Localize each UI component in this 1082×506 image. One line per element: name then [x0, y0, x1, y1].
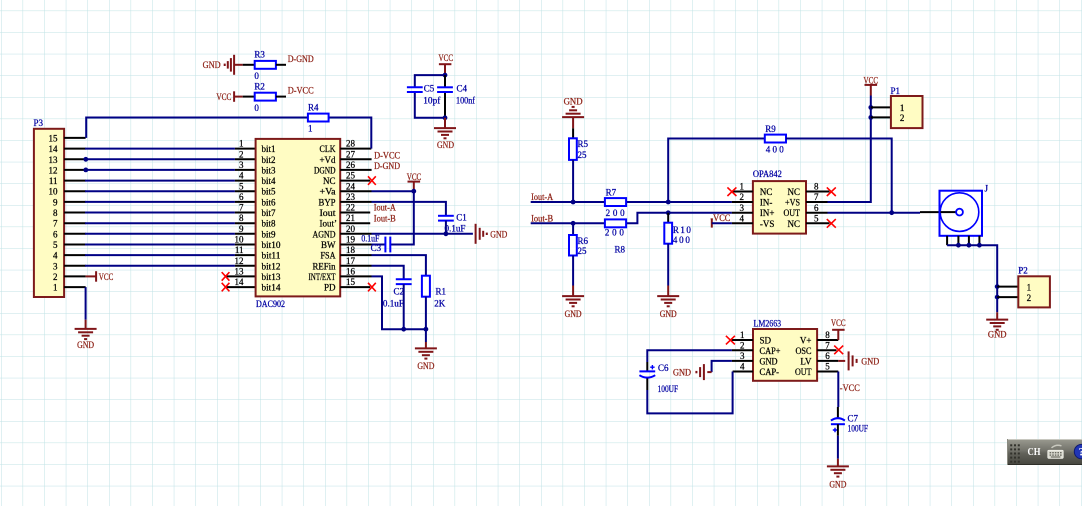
DAC902 right pin stubs 28-15: [340, 149, 371, 288]
svg-text:100UF: 100UF: [848, 424, 869, 434]
svg-text:R7: R7: [606, 188, 617, 198]
wire J shield to P2 rail: [947, 245, 997, 312]
junction dot P2 pin 2: [995, 295, 1000, 300]
svg-text:GND: GND: [829, 479, 846, 489]
svg-text:0: 0: [254, 71, 259, 81]
junction dot J stub 2: [956, 243, 961, 248]
connector P3: [34, 118, 86, 297]
svg-text:AGND: AGND: [313, 229, 336, 239]
svg-text:21: 21: [346, 213, 355, 223]
svg-text:bit9: bit9: [262, 229, 277, 239]
svg-text:BYP: BYP: [319, 197, 336, 207]
junction dot R10/IN+ line: [666, 210, 671, 215]
resistor R8 200: [605, 219, 626, 254]
svg-text:bit6: bit6: [262, 197, 277, 207]
svg-text:R6: R6: [578, 236, 589, 246]
svg-text:1: 1: [308, 124, 313, 134]
wire OUT pin 5 down to C7: [837, 372, 839, 408]
no-connect X on DAC902 pin 25 NC: [368, 176, 376, 185]
svg-text:9: 9: [53, 197, 58, 207]
resistor R2 0: [254, 81, 276, 113]
no-connect X on DAC902 pin 14 bit14: [222, 283, 230, 292]
capacitor C1 0.1uF: [438, 213, 467, 234]
junction dot R6/Iout-B: [571, 221, 576, 226]
junction dot P1 pin 1: [868, 105, 873, 110]
wire Iout-B junction down to R6: [572, 223, 574, 235]
svg-text:10: 10: [49, 187, 59, 197]
no-connect X on DAC902 pin 13 bit13: [222, 272, 230, 281]
svg-text:DGND: DGND: [314, 165, 336, 175]
svg-text:D-VCC: D-VCC: [288, 86, 314, 96]
svg-text:7: 7: [825, 340, 830, 350]
svg-text:C7: C7: [848, 413, 859, 423]
power port VCC at P3 pin 2: [86, 271, 114, 282]
svg-text:IN-: IN-: [760, 198, 773, 208]
svg-text:Iout: Iout: [320, 208, 337, 218]
DAC902 U1 body: [235, 139, 356, 309]
resistor R10 400: [664, 223, 691, 246]
svg-text:bit8: bit8: [262, 219, 277, 229]
svg-text:6: 6: [239, 192, 244, 202]
language bar help button: [1074, 444, 1082, 458]
wire R1 down to ground rail: [425, 297, 427, 330]
capacitor C6 100UF polarized: [639, 362, 678, 394]
wire C6 bottom to CAP- pin 4: [647, 372, 732, 414]
language bar keyboard icon: [1048, 445, 1063, 458]
svg-text:3: 3: [740, 203, 745, 213]
OPA842 pin stubs: [732, 192, 830, 224]
svg-text:GND: GND: [417, 361, 434, 371]
svg-text:R4: R4: [308, 102, 319, 112]
svg-text:3: 3: [740, 351, 745, 361]
wire BW pin 19 to C3: [372, 244, 386, 246]
svg-text:100nf: 100nf: [456, 96, 475, 106]
power port -VCC at OPA842 pin 4: [710, 213, 732, 228]
wire bus P3 pins 14-3 to DAC902 bit1-bit12: [85, 149, 235, 266]
junction dot P1 pin 2: [868, 115, 873, 120]
svg-text:2: 2: [740, 340, 745, 350]
resistor R1 2K: [422, 276, 446, 309]
wire C4 branch: [444, 75, 446, 118]
power port GND below P2 rail: [986, 312, 1008, 339]
svg-text:14: 14: [235, 277, 245, 287]
svg-text:VCC: VCC: [831, 318, 846, 328]
P2 pin stubs: [997, 287, 1018, 298]
junction dot C4 bottom: [443, 115, 448, 120]
svg-text:8: 8: [825, 330, 830, 340]
svg-text:17: 17: [346, 256, 356, 266]
svg-text:24: 24: [346, 181, 356, 191]
svg-text:NC: NC: [787, 187, 800, 197]
no-connect X on LM2663 pin 1 SD: [726, 336, 735, 345]
svg-text:bit10: bit10: [262, 240, 281, 250]
svg-text:1: 1: [740, 182, 745, 192]
svg-text:4: 4: [740, 213, 745, 223]
wire net CLK from R4 left to P3 pin 15: [86, 118, 308, 138]
svg-text:GND: GND: [203, 60, 221, 70]
junction dot P3 pin 12 row: [83, 168, 88, 173]
svg-text:VCC: VCC: [99, 272, 114, 282]
language bar grip dots: [1010, 444, 1020, 462]
svg-text:IN+: IN+: [760, 208, 775, 218]
svg-text:R1: R1: [436, 287, 447, 297]
svg-text:8: 8: [53, 208, 58, 218]
svg-text:R10: R10: [673, 225, 692, 235]
power port GND below R6: [562, 286, 584, 319]
svg-text:1: 1: [740, 330, 745, 340]
wire net CLK from pin 28 up over to R4: [329, 118, 372, 149]
svg-text:400: 400: [766, 145, 785, 155]
svg-text:D-GND: D-GND: [288, 54, 314, 64]
svg-text:DAC902: DAC902: [256, 299, 285, 309]
junction dot P2 pin 1: [995, 284, 1000, 289]
DAC902 left pin stubs bit1-bit14: [226, 149, 256, 288]
svg-text:0: 0: [254, 103, 259, 113]
svg-text:5: 5: [814, 213, 819, 223]
svg-text:0.1uF: 0.1uF: [445, 224, 466, 234]
svg-text:11: 11: [235, 245, 244, 255]
P1 pin stubs: [871, 107, 891, 117]
svg-text:15: 15: [346, 277, 356, 287]
svg-text:C3: C3: [371, 243, 382, 253]
svg-text:Iout’: Iout’: [320, 219, 338, 229]
connector J BNC: [920, 184, 989, 246]
wire feedback from Iout-A junction up to R9: [668, 139, 765, 203]
power port GND above R5: [562, 97, 584, 129]
power port GND below C4: [434, 118, 456, 150]
svg-text:CAP-: CAP-: [760, 367, 780, 377]
svg-text:5: 5: [239, 181, 244, 191]
svg-text:NC: NC: [323, 176, 336, 186]
power port VCC above P1 rail: [864, 75, 879, 95]
junction dot VCC/C4 top: [443, 73, 448, 78]
power port GND at P3 pin 1: [75, 287, 97, 350]
connector P2: [1018, 266, 1050, 308]
svg-text:OPA842: OPA842: [753, 169, 782, 179]
svg-text:22: 22: [346, 203, 355, 213]
svg-text:15: 15: [49, 133, 59, 143]
svg-text:VCC: VCC: [864, 75, 879, 85]
svg-text:INT/EXT: INT/EXT: [309, 272, 336, 282]
svg-text:Iout-B: Iout-B: [531, 214, 553, 224]
power port GND at R3: [203, 55, 243, 75]
svg-text:2: 2: [900, 113, 905, 123]
wire GND to R5: [572, 128, 574, 138]
svg-text:D-GND: D-GND: [374, 161, 400, 171]
svg-text:GND: GND: [988, 330, 1007, 340]
wire C1 down to AGND line: [445, 221, 447, 234]
svg-text:LV: LV: [800, 356, 812, 366]
svg-text:200: 200: [606, 208, 626, 218]
svg-text:200: 200: [605, 228, 625, 238]
svg-text:1: 1: [239, 139, 244, 149]
junction dot J stub 4: [977, 243, 982, 248]
power port GND at LM2663 pin 3: [673, 364, 712, 380]
resistor R3 0: [254, 49, 276, 81]
resistor R5 25: [569, 138, 589, 160]
wire from +Va junction down to C3: [390, 191, 414, 244]
svg-text:CAP+: CAP+: [760, 346, 781, 356]
wire R6 down to GND: [572, 256, 574, 286]
svg-text:1: 1: [53, 283, 58, 293]
wire AGND pin 20 to GND port: [372, 233, 473, 235]
wire GND pin 3 to ground port: [712, 361, 732, 372]
svg-text:2: 2: [53, 272, 58, 282]
svg-text:1: 1: [900, 103, 905, 113]
svg-text:LM2663: LM2663: [754, 319, 782, 329]
junction dot R5/Iout-A: [571, 200, 576, 205]
svg-text:GND: GND: [760, 356, 778, 366]
svg-text:bit2: bit2: [262, 155, 276, 165]
svg-text:V+: V+: [800, 336, 812, 346]
svg-text:-VCC: -VCC: [710, 213, 730, 223]
svg-text:bit4: bit4: [262, 176, 277, 186]
svg-text:8: 8: [239, 213, 244, 223]
wire GND to R3: [243, 64, 255, 66]
svg-text:GND: GND: [564, 97, 583, 107]
wire BYP pin 23 to C1: [372, 202, 446, 216]
svg-text:C2: C2: [394, 287, 405, 297]
svg-text:VCC: VCC: [407, 172, 422, 182]
svg-text:bit11: bit11: [262, 251, 281, 261]
svg-text:VCC: VCC: [216, 92, 231, 102]
wire R10 down to GND: [667, 244, 669, 286]
svg-text:28: 28: [346, 139, 356, 149]
svg-text:19: 19: [346, 235, 356, 245]
svg-text:0.1uF: 0.1uF: [383, 299, 404, 309]
power port VCC at DAC pin 24: [407, 172, 422, 191]
svg-text:R5: R5: [578, 139, 589, 149]
svg-text:P3: P3: [34, 118, 44, 128]
wire C2 down to ground rail: [403, 284, 405, 329]
svg-text:GND: GND: [565, 309, 582, 319]
svg-text:R2: R2: [254, 81, 265, 91]
capacitor C3 0.1uF: [361, 233, 390, 253]
LM2663 pin stubs: [731, 340, 839, 372]
wire REFin pin 17 to C2: [372, 266, 404, 280]
svg-text:7: 7: [239, 203, 244, 213]
connector P1: [891, 86, 923, 128]
svg-text:GND: GND: [490, 229, 507, 239]
svg-text:1: 1: [1027, 282, 1032, 292]
junction dot C2/ground rail: [401, 327, 406, 332]
power port GND at LM2663 pin 6 LV: [838, 351, 879, 370]
svg-text:100UF: 100UF: [658, 384, 679, 394]
svg-text:2K: 2K: [434, 299, 446, 309]
svg-text:CLK: CLK: [320, 144, 336, 154]
wire R2 to net label: [276, 96, 286, 98]
svg-text:4: 4: [239, 171, 244, 181]
svg-text:OSC: OSC: [796, 346, 812, 356]
no-connect X on OPA842 pin 1: [727, 187, 736, 196]
svg-text:GND: GND: [861, 357, 879, 367]
svg-text:BW: BW: [321, 240, 336, 250]
svg-text:3: 3: [239, 160, 244, 170]
svg-text:bit7: bit7: [262, 208, 277, 218]
svg-text:26: 26: [346, 160, 356, 170]
wire C5 branch loop: [415, 75, 445, 118]
svg-text:2: 2: [1027, 293, 1032, 303]
svg-text:5: 5: [825, 362, 830, 372]
svg-text:+Va: +Va: [320, 187, 336, 197]
resistor R4: [308, 102, 329, 133]
svg-text:4: 4: [740, 362, 745, 372]
svg-text:bit3: bit3: [262, 165, 277, 175]
svg-text:VCC: VCC: [439, 53, 454, 63]
wire C7 down to GND: [837, 436, 839, 459]
no-connect X on OPA842 pin 8: [827, 187, 836, 196]
svg-text:8: 8: [814, 182, 819, 192]
power port GND below C7: [827, 459, 849, 490]
charge pump LM2663 body: [740, 319, 830, 381]
wire OUT pin 6 to J: [828, 212, 921, 214]
junction dot C1/AGND: [444, 231, 449, 236]
svg-text:2: 2: [239, 149, 244, 159]
svg-text:GND: GND: [77, 340, 94, 350]
svg-text:23: 23: [346, 192, 356, 202]
no-connect X on DAC902 pin 15 PD: [368, 283, 376, 292]
svg-text:4: 4: [53, 251, 58, 261]
svg-text:27: 27: [346, 149, 356, 159]
svg-text:Iout-B: Iout-B: [374, 213, 396, 223]
svg-text:3: 3: [53, 261, 58, 271]
wire R9 right side down to OUT line: [786, 139, 892, 213]
svg-text:18: 18: [346, 245, 356, 255]
resistor R7 200: [605, 188, 626, 218]
svg-text:C6: C6: [658, 363, 669, 373]
svg-text:bit14: bit14: [262, 283, 281, 293]
resistor R9 400: [765, 124, 786, 154]
svg-text:bit12: bit12: [262, 261, 281, 271]
svg-text:12: 12: [49, 165, 58, 175]
svg-text:?: ?: [1079, 447, 1082, 459]
Windows language bar: [1007, 439, 1082, 465]
junction dot +Va/VCC: [411, 189, 416, 194]
svg-text:25: 25: [578, 150, 588, 160]
svg-text:-VS: -VS: [760, 219, 775, 229]
svg-text:OUT: OUT: [784, 208, 801, 218]
wire +VS pin 7 to VCC rail: [828, 96, 871, 203]
capacitor C7 100UF polarized: [831, 407, 868, 436]
svg-text:6: 6: [825, 351, 830, 361]
svg-text:7: 7: [814, 192, 819, 202]
svg-text:PD: PD: [324, 283, 336, 293]
resistor R6 25: [569, 235, 589, 256]
power port VCC above C4: [439, 53, 454, 75]
wire net +Va pin 24 to VCC junction: [372, 190, 414, 192]
wire CAP+ pin 2 to C6: [647, 350, 732, 362]
power port VCC at LM2663 pin 8: [831, 318, 846, 340]
power port GND below R1 rail: [415, 329, 437, 371]
svg-text:R9: R9: [765, 124, 776, 134]
wire FSA pin 18 to R1: [372, 255, 426, 276]
wire INT/EXT pin 16 down to ground rail: [372, 276, 426, 329]
svg-text:Iout-A: Iout-A: [531, 192, 553, 202]
svg-text:GND: GND: [673, 367, 691, 377]
svg-text:6: 6: [53, 229, 58, 239]
svg-text:9: 9: [239, 224, 244, 234]
wire R5 down to Iout-A line: [572, 160, 574, 202]
junction dot feedback/OUT: [889, 210, 894, 215]
svg-text:14: 14: [49, 144, 59, 154]
svg-text:SD: SD: [760, 336, 772, 346]
svg-text:7: 7: [53, 219, 58, 229]
svg-text:0.1uF: 0.1uF: [361, 233, 379, 243]
svg-text:bit13: bit13: [262, 272, 281, 282]
capacitor C5 10pf: [407, 84, 440, 106]
svg-text:NC: NC: [760, 187, 773, 197]
no-connect X on LM2663 pin 7 OSC: [834, 346, 843, 355]
power port GND below R10: [657, 286, 679, 319]
svg-text:5: 5: [53, 240, 58, 250]
svg-text:25: 25: [346, 171, 356, 181]
power port VCC at R2: [216, 91, 242, 102]
junction dot P3 pin 13 row: [83, 157, 88, 162]
svg-text:J: J: [985, 184, 989, 194]
wire net Iout-A to OPA842 IN-: [531, 201, 732, 203]
op-amp OPA842 body: [740, 169, 820, 234]
wire VCC to R2: [243, 96, 255, 98]
wire IN+ junction down to R10: [667, 213, 669, 223]
svg-text:REFin: REFin: [313, 261, 336, 271]
svg-text:+Vd: +Vd: [320, 155, 336, 165]
svg-text:Iout-A: Iout-A: [374, 203, 396, 213]
svg-text:11: 11: [49, 176, 58, 186]
junction dot J stub 3: [967, 243, 972, 248]
no-connect X on OPA842 pin 5: [827, 219, 836, 228]
wire net Iout-B through R8 up to OPA842 IN+: [531, 213, 732, 224]
svg-text:400: 400: [673, 235, 691, 245]
capacitor C4 100nf: [437, 84, 475, 106]
svg-text:OUT: OUT: [795, 367, 812, 377]
svg-text:6: 6: [814, 203, 819, 213]
svg-text:C1: C1: [456, 213, 467, 223]
svg-text:D-VCC: D-VCC: [374, 150, 400, 160]
svg-text:GND: GND: [437, 140, 454, 150]
svg-text:-VCC: -VCC: [840, 383, 860, 393]
svg-text:NC: NC: [787, 219, 800, 229]
svg-text:P1: P1: [891, 86, 901, 96]
svg-text:C4: C4: [457, 84, 468, 94]
capacitor C2 0.1uF: [383, 279, 412, 308]
svg-text:10pf: 10pf: [423, 96, 440, 106]
svg-text:GND: GND: [660, 309, 677, 319]
svg-text:25: 25: [578, 246, 588, 256]
svg-text:FSA: FSA: [321, 251, 336, 261]
svg-text:+VS: +VS: [785, 198, 800, 208]
svg-text:C5: C5: [424, 84, 435, 94]
svg-text:P2: P2: [1018, 266, 1028, 276]
svg-text:2: 2: [740, 192, 745, 202]
wire R3 to net label: [276, 64, 286, 66]
svg-text:16: 16: [346, 267, 356, 277]
junction dot R1/ground rail: [424, 327, 429, 332]
power port GND right of AGND line: [476, 224, 508, 244]
svg-text:CH: CH: [1028, 447, 1041, 458]
svg-text:bit1: bit1: [262, 144, 276, 154]
svg-text:13: 13: [49, 155, 59, 165]
svg-text:10: 10: [235, 235, 245, 245]
svg-text:20: 20: [346, 224, 356, 234]
svg-text:bit5: bit5: [262, 187, 277, 197]
svg-text:12: 12: [235, 256, 244, 266]
svg-text:R3: R3: [254, 49, 265, 59]
junction dot feedback/Iout-A: [666, 200, 671, 205]
svg-text:13: 13: [235, 267, 245, 277]
svg-text:R8: R8: [615, 245, 626, 255]
